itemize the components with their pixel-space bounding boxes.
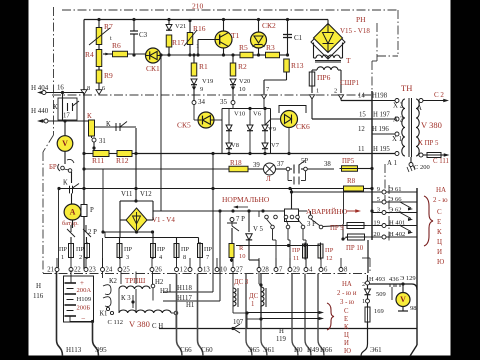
svg-text:Н2: Н2 xyxy=(155,279,164,286)
svg-text:Н113: Н113 xyxy=(66,346,82,354)
svg-text:1: 1 xyxy=(316,88,319,95)
svg-text:СК5: СК5 xyxy=(177,121,191,130)
svg-text:35: 35 xyxy=(220,98,228,106)
svg-text:Н 402: Н 402 xyxy=(389,231,405,238)
svg-text:С 2: С 2 xyxy=(434,91,444,99)
svg-text:4: 4 xyxy=(309,267,313,274)
svg-text:9: 9 xyxy=(200,86,203,93)
svg-text:СК6: СК6 xyxy=(296,122,310,131)
svg-text:116: 116 xyxy=(33,292,44,300)
svg-text:11: 11 xyxy=(293,255,299,262)
svg-text:Н66: Н66 xyxy=(320,346,333,354)
svg-text:К: К xyxy=(63,180,68,187)
svg-text:V8: V8 xyxy=(231,142,239,149)
svg-text:ДС 3: ДС 3 xyxy=(234,279,249,286)
svg-text:V 380: V 380 xyxy=(421,120,442,130)
svg-text:V7: V7 xyxy=(271,142,280,149)
svg-text:А: А xyxy=(417,105,422,112)
svg-text:R17: R17 xyxy=(172,38,185,47)
svg-text:И: И xyxy=(437,248,442,256)
svg-text:R6: R6 xyxy=(112,41,121,50)
svg-text:13: 13 xyxy=(203,267,210,274)
svg-text:169: 169 xyxy=(374,308,384,315)
svg-text:ПР: ПР xyxy=(325,247,334,254)
svg-text:V: V xyxy=(400,295,406,304)
svg-text:V 5: V 5 xyxy=(253,226,263,233)
svg-text:V6: V6 xyxy=(253,111,262,118)
svg-text:R11: R11 xyxy=(92,156,104,165)
svg-text:Н198: Н198 xyxy=(372,93,388,100)
svg-text:200А: 200А xyxy=(77,287,92,294)
svg-text:Н109: Н109 xyxy=(77,296,92,303)
svg-text:14: 14 xyxy=(358,93,365,100)
svg-text:Н 196: Н 196 xyxy=(372,126,389,133)
svg-text:24: 24 xyxy=(106,267,113,274)
svg-text:Ц: Ц xyxy=(344,332,349,339)
svg-text:25: 25 xyxy=(123,267,130,274)
svg-text:R8: R8 xyxy=(347,177,356,185)
svg-text:V21: V21 xyxy=(175,23,186,30)
svg-text:V 380: V 380 xyxy=(129,319,150,329)
svg-text:Х 1: Х 1 xyxy=(392,136,402,143)
svg-text:К: К xyxy=(53,104,58,111)
svg-text:R18: R18 xyxy=(230,159,242,167)
svg-text:К1: К1 xyxy=(100,311,108,318)
svg-text:Р: Р xyxy=(90,207,94,214)
svg-text:С 111: С 111 xyxy=(433,158,449,165)
svg-text:509: 509 xyxy=(376,291,386,298)
svg-text:АВАРИЙНО: АВАРИЙНО xyxy=(306,207,348,216)
svg-text:10: 10 xyxy=(239,86,246,93)
svg-text:С 112: С 112 xyxy=(108,319,123,326)
svg-text:7 Р: 7 Р xyxy=(236,216,245,223)
svg-text:И: И xyxy=(344,340,349,347)
svg-text:23: 23 xyxy=(89,267,96,274)
svg-text:Н 197: Н 197 xyxy=(373,112,390,119)
svg-text:Л: Л xyxy=(266,175,271,183)
svg-text:К2: К2 xyxy=(109,278,118,285)
svg-text:ТРПШ: ТРПШ xyxy=(125,277,145,285)
svg-text:ТН: ТН xyxy=(401,83,412,93)
svg-text:119: 119 xyxy=(276,336,287,343)
svg-text:РН: РН xyxy=(356,15,366,24)
svg-text:К: К xyxy=(344,324,349,331)
svg-text:Ю: Ю xyxy=(437,258,444,266)
svg-text:210: 210 xyxy=(192,2,204,11)
svg-text:31: 31 xyxy=(99,138,106,145)
svg-text:V20: V20 xyxy=(239,78,250,85)
svg-text:Н 493: Н 493 xyxy=(369,276,385,283)
svg-text:V15 - V18: V15 - V18 xyxy=(340,27,370,35)
svg-text:А 1: А 1 xyxy=(387,160,397,167)
svg-text:12: 12 xyxy=(326,255,333,262)
svg-text:Э95: Э95 xyxy=(95,346,107,354)
svg-text:Х ПР 5: Х ПР 5 xyxy=(418,140,439,147)
svg-text:V: V xyxy=(62,139,68,148)
svg-text:К: К xyxy=(106,121,111,128)
svg-text:8: 8 xyxy=(87,85,90,92)
svg-text:V11: V11 xyxy=(121,191,132,198)
svg-text:38: 38 xyxy=(324,161,331,168)
svg-text:2: 2 xyxy=(334,88,337,95)
svg-text:2: 2 xyxy=(79,254,82,261)
svg-text:R: R xyxy=(239,245,244,252)
svg-text:Н: Н xyxy=(279,328,284,335)
svg-text:ПР: ПР xyxy=(157,246,166,253)
svg-text:Н 440: Н 440 xyxy=(31,107,49,115)
svg-text:V1 - V4: V1 - V4 xyxy=(152,216,175,224)
svg-text:15: 15 xyxy=(359,112,366,119)
svg-text:СК2: СК2 xyxy=(262,21,276,30)
svg-text:Э 61: Э 61 xyxy=(389,186,402,193)
svg-text:–: – xyxy=(81,314,86,322)
svg-text:ПР: ПР xyxy=(59,246,68,253)
svg-text:19: 19 xyxy=(373,219,380,226)
svg-text:Э61: Э61 xyxy=(263,346,275,354)
svg-text:ПР6: ПР6 xyxy=(317,73,331,82)
svg-text:200Б: 200Б xyxy=(77,305,91,312)
svg-text:T: T xyxy=(346,56,351,65)
svg-text:R9: R9 xyxy=(104,71,113,80)
svg-text:98: 98 xyxy=(410,305,417,312)
svg-text:Е: Е xyxy=(344,316,348,323)
svg-text:20: 20 xyxy=(373,231,380,238)
svg-text:С: С xyxy=(344,308,349,315)
svg-text:26: 26 xyxy=(155,267,162,274)
svg-text:Н 404: Н 404 xyxy=(31,84,49,92)
svg-text:R2: R2 xyxy=(238,62,247,71)
svg-text:37: 37 xyxy=(277,161,284,168)
svg-text:ПР: ПР xyxy=(76,246,85,253)
svg-text:7: 7 xyxy=(206,254,209,261)
svg-text:ПР: ПР xyxy=(124,246,133,253)
svg-text:21: 21 xyxy=(47,267,54,274)
svg-text:Н0: Н0 xyxy=(294,346,303,354)
svg-text:ПР 10: ПР 10 xyxy=(346,245,364,252)
svg-text:V9: V9 xyxy=(268,126,276,133)
svg-text:R3: R3 xyxy=(266,43,275,52)
svg-text:8: 8 xyxy=(344,267,348,274)
svg-text:R12: R12 xyxy=(116,156,129,165)
svg-text:R4: R4 xyxy=(85,50,94,59)
svg-text:А: А xyxy=(70,208,76,217)
svg-text:Ц: Ц xyxy=(437,238,442,246)
svg-text:2: 2 xyxy=(184,267,188,274)
svg-text:1: 1 xyxy=(180,267,183,274)
svg-text:ПР: ПР xyxy=(204,246,213,253)
svg-text:К: К xyxy=(87,112,92,120)
svg-text:Э 129: Э 129 xyxy=(400,275,416,282)
svg-text:СК1: СК1 xyxy=(146,64,160,73)
svg-text:1: 1 xyxy=(362,298,365,305)
svg-text:Э65: Э65 xyxy=(248,346,260,354)
svg-text:436: 436 xyxy=(389,276,400,283)
svg-text:17: 17 xyxy=(63,113,70,120)
svg-text:С 200: С 200 xyxy=(414,164,430,171)
svg-text:Е: Е xyxy=(437,218,441,226)
svg-text:2: 2 xyxy=(362,281,365,288)
svg-text:СШР1: СШР1 xyxy=(340,79,360,87)
svg-text:10: 10 xyxy=(239,253,246,260)
svg-text:3 - ю: 3 - ю xyxy=(340,299,354,306)
svg-text:НА: НА xyxy=(342,281,352,288)
svg-text:Н: Н xyxy=(36,282,41,290)
svg-text:R13: R13 xyxy=(291,61,304,70)
svg-text:R5: R5 xyxy=(239,43,248,52)
svg-text:ПР 9: ПР 9 xyxy=(330,225,344,232)
svg-text:С60: С60 xyxy=(201,346,213,354)
svg-text:11: 11 xyxy=(358,146,365,153)
svg-text:С: С xyxy=(437,208,442,216)
svg-text:Ю: Ю xyxy=(344,348,351,355)
svg-text:2 - ю: 2 - ю xyxy=(433,196,448,204)
svg-text:22: 22 xyxy=(74,267,81,274)
svg-text:16: 16 xyxy=(57,85,64,92)
svg-text:ПР: ПР xyxy=(292,247,301,254)
svg-text:V19: V19 xyxy=(202,78,213,85)
svg-text:V12: V12 xyxy=(140,191,152,198)
svg-text:3: 3 xyxy=(126,254,129,261)
svg-text:ПР: ПР xyxy=(181,246,190,253)
svg-text:28: 28 xyxy=(262,267,269,274)
svg-text:Э 62: Э 62 xyxy=(389,206,402,213)
svg-text:Н1: Н1 xyxy=(186,302,194,309)
svg-text:Н49: Н49 xyxy=(307,346,320,354)
svg-text:27: 27 xyxy=(236,267,243,274)
svg-text:ДС: ДС xyxy=(249,293,259,300)
svg-text:БР: БР xyxy=(49,164,57,171)
svg-text:Э61: Э61 xyxy=(370,346,382,354)
svg-text:1: 1 xyxy=(251,301,254,308)
svg-text:29: 29 xyxy=(293,267,300,274)
svg-text:2 - ю и: 2 - ю и xyxy=(337,290,357,297)
svg-text:С66: С66 xyxy=(180,346,192,354)
svg-text:R16: R16 xyxy=(193,24,206,33)
svg-text:5Р: 5Р xyxy=(301,158,308,165)
svg-text:ПР5: ПР5 xyxy=(342,158,355,165)
svg-text:12: 12 xyxy=(358,126,365,133)
svg-text:НОРМАЛЬНО: НОРМАЛЬНО xyxy=(222,195,270,204)
svg-text:1: 1 xyxy=(61,254,64,261)
svg-text:T1: T1 xyxy=(231,31,240,40)
svg-text:Н 401: Н 401 xyxy=(389,219,405,226)
svg-text:Н 195: Н 195 xyxy=(373,146,390,153)
svg-text:V10: V10 xyxy=(234,111,245,118)
svg-text:+: + xyxy=(80,279,84,287)
svg-text:39: 39 xyxy=(253,162,260,169)
svg-text:НА: НА xyxy=(436,186,446,194)
svg-text:К 3: К 3 xyxy=(121,295,131,302)
svg-text:34: 34 xyxy=(198,98,206,106)
svg-text:7: 7 xyxy=(279,267,283,274)
svg-text:R1: R1 xyxy=(199,62,208,71)
svg-text:C3: C3 xyxy=(139,31,148,39)
svg-text:6: 6 xyxy=(324,267,328,274)
svg-text:К: К xyxy=(437,228,442,236)
svg-text:8: 8 xyxy=(183,254,186,261)
svg-text:C1: C1 xyxy=(294,34,303,42)
svg-text:Н118: Н118 xyxy=(177,285,192,292)
svg-text:10: 10 xyxy=(220,267,227,274)
